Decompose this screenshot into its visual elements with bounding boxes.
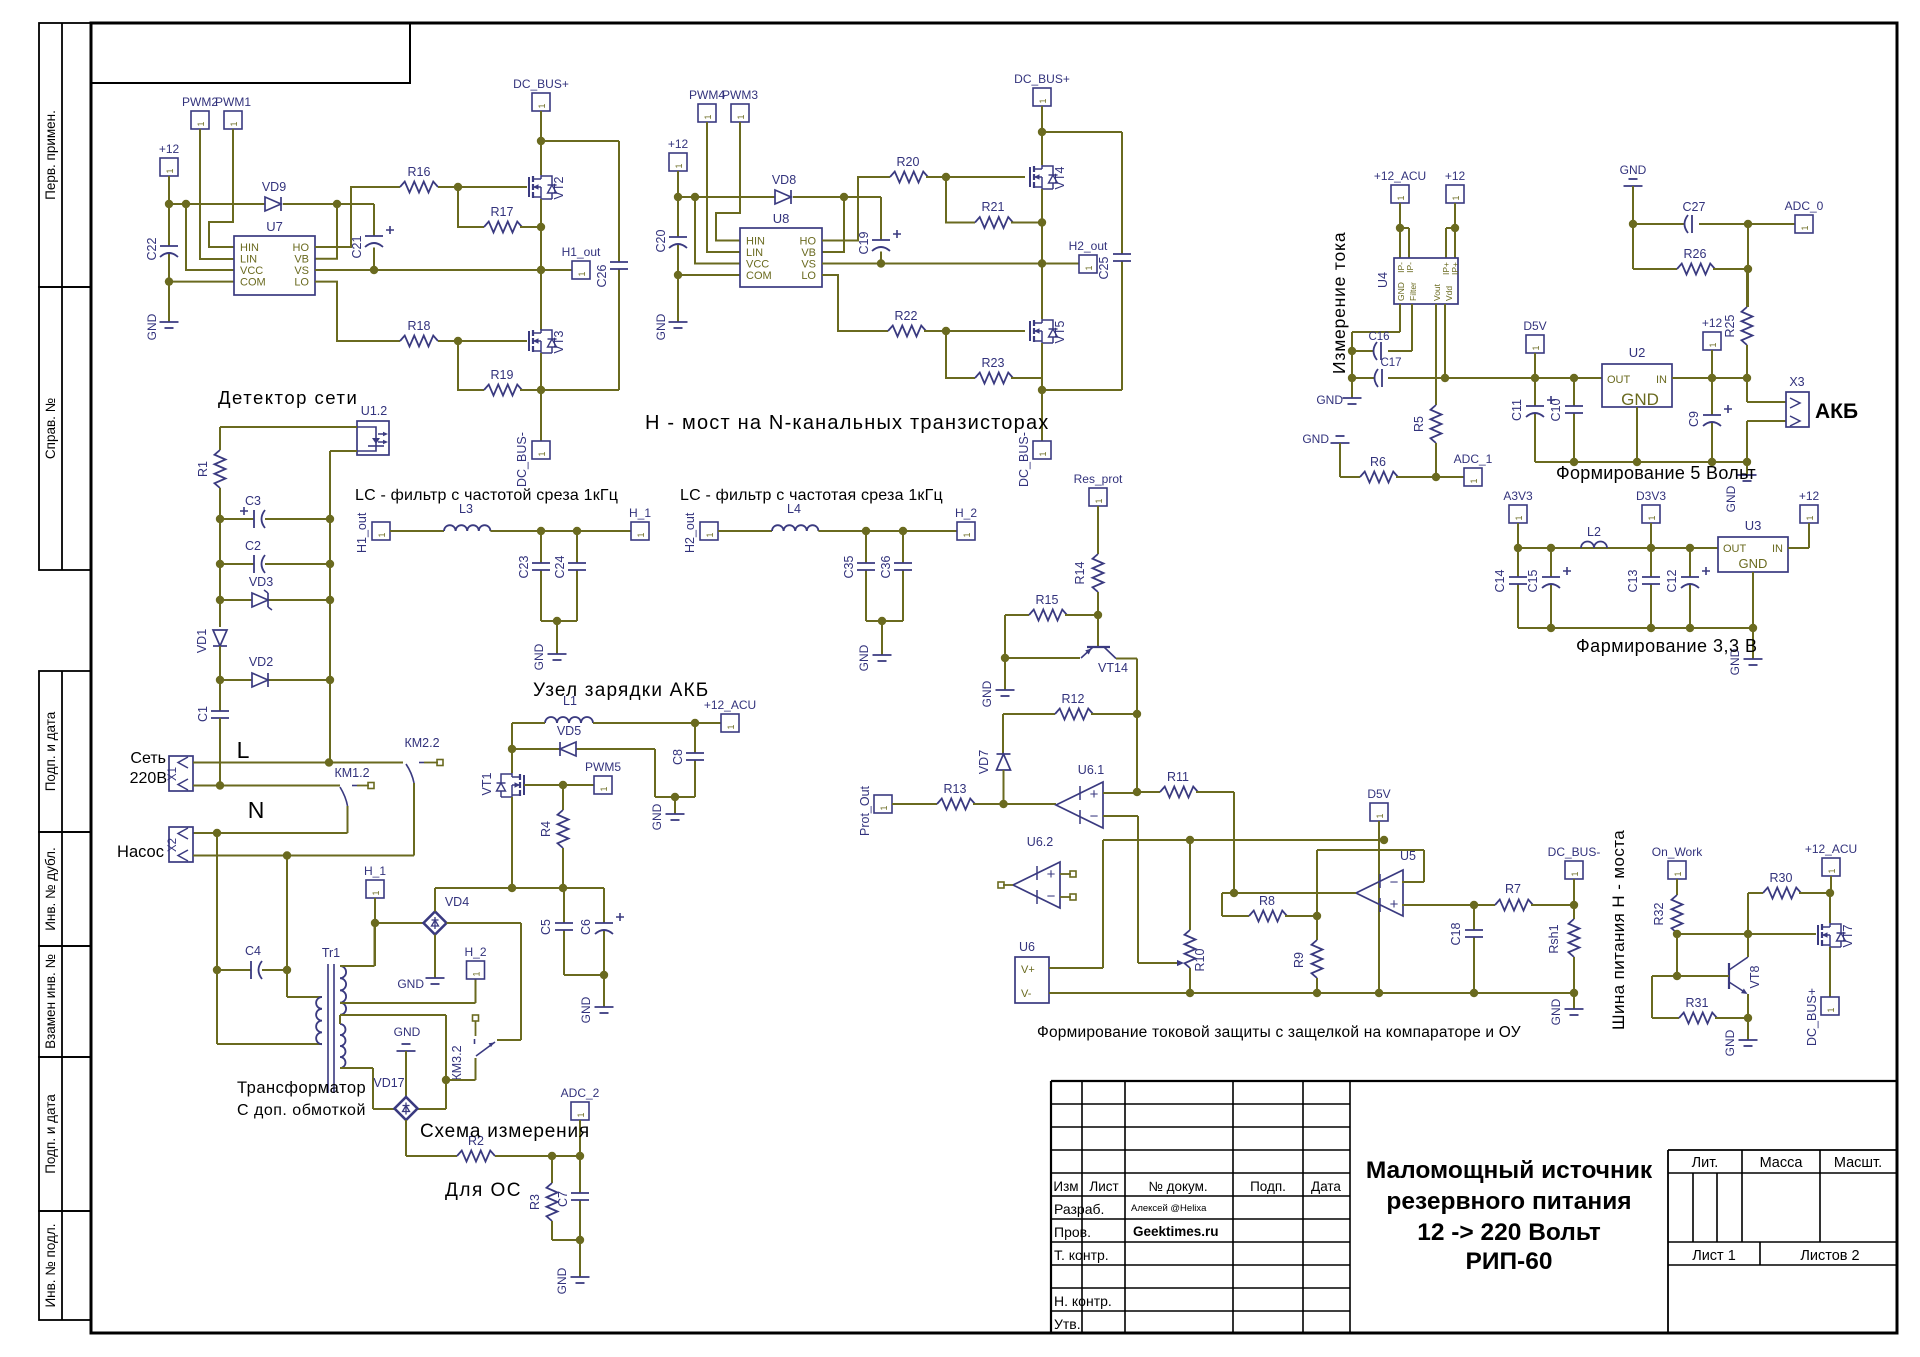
svg-text:PWM5: PWM5 xyxy=(585,760,621,774)
svg-text:GND: GND xyxy=(1724,485,1738,512)
wire to L4 xyxy=(718,530,772,532)
wire C25 branch xyxy=(1042,132,1122,390)
wire VT1 source xyxy=(511,797,513,888)
svg-text:PWM2: PWM2 xyxy=(182,95,218,109)
wire R15 right xyxy=(1065,614,1098,616)
wire C20 to GND xyxy=(677,275,679,322)
wire VT8 collector xyxy=(1747,934,1749,957)
resistor R14 xyxy=(1093,554,1104,592)
wire R32 down xyxy=(1676,933,1678,976)
wire R1 down xyxy=(219,488,221,627)
transistor VT3 xyxy=(528,331,530,351)
wire L1 left xyxy=(512,723,545,749)
svg-text:VT4: VT4 xyxy=(1053,166,1067,189)
capacitor C26 xyxy=(610,261,628,263)
wire U4 GND pin xyxy=(1352,304,1400,378)
svg-text:1: 1 xyxy=(165,168,175,173)
svg-text:GND: GND xyxy=(1549,998,1563,1025)
svg-text:Инв. № дубл.: Инв. № дубл. xyxy=(43,847,58,931)
wire to GND xyxy=(603,975,605,1007)
wire PWM4 to LIN xyxy=(707,122,740,252)
port ADC_1 xyxy=(1464,468,1482,486)
svg-text:1: 1 xyxy=(1396,195,1406,200)
wire latch bottom rail xyxy=(1049,992,1574,994)
svg-text:1: 1 xyxy=(1451,195,1461,200)
svg-text:1: 1 xyxy=(636,532,646,537)
svg-text:C15: C15 xyxy=(1526,569,1540,592)
svg-text:Для ОС: Для ОС xyxy=(445,1180,522,1201)
wire to GND xyxy=(1573,993,1575,1009)
svg-text:GND: GND xyxy=(654,313,668,340)
port +12 (U4) xyxy=(1446,185,1464,203)
svg-text:GND: GND xyxy=(1739,556,1768,571)
svg-text:Формирование токовой защиты с: Формирование токовой защиты с защелкой н… xyxy=(1037,1024,1521,1041)
wire 3.3V bottom rail xyxy=(1518,627,1753,629)
svg-text:Справ. №: Справ. № xyxy=(43,398,58,459)
svg-text:C14: C14 xyxy=(1493,569,1507,592)
svg-text:GND: GND xyxy=(1316,393,1343,407)
svg-text:H2_out: H2_out xyxy=(683,512,697,553)
svg-text:VD5: VD5 xyxy=(557,724,581,738)
port H1_out (filter1) xyxy=(372,522,390,540)
wire R16 to VT2 gate xyxy=(438,186,527,188)
svg-text:L4: L4 xyxy=(787,502,801,516)
resistor R26 xyxy=(1633,268,1677,270)
svg-text:+: + xyxy=(1090,786,1099,803)
svg-text:H_1: H_1 xyxy=(629,506,651,520)
svg-text:C12: C12 xyxy=(1665,569,1679,592)
wire VT14 collector xyxy=(1116,659,1137,793)
svg-text:PWM1: PWM1 xyxy=(215,95,251,109)
svg-text:РИП-60: РИП-60 xyxy=(1466,1248,1553,1275)
inductor L4 xyxy=(772,525,818,531)
wire gate to R19 xyxy=(458,341,484,390)
svg-text:C16: C16 xyxy=(1368,331,1389,343)
svg-text:Масса: Масса xyxy=(1760,1155,1804,1171)
svg-text:On_Work: On_Work xyxy=(1652,845,1703,859)
svg-text:1: 1 xyxy=(1805,515,1815,520)
wire gate line xyxy=(1677,933,1816,935)
wire 3.3V rail xyxy=(1518,547,1718,549)
wire U2 GND pin xyxy=(1636,407,1638,462)
inductor L2 xyxy=(1581,542,1607,549)
wire VD7 anode xyxy=(1003,770,1005,804)
capacitor C7 xyxy=(579,1156,581,1240)
wire filter1 bottom xyxy=(541,620,577,622)
svg-text:Tr1: Tr1 xyxy=(322,946,340,960)
port +12_ACU (U4) xyxy=(1391,185,1409,203)
svg-text:D5V: D5V xyxy=(1523,319,1546,333)
port +12 (U8) xyxy=(669,153,687,171)
svg-text:ADC_1: ADC_1 xyxy=(1454,452,1493,466)
wire VD4 top vertex xyxy=(434,888,436,912)
svg-text:1: 1 xyxy=(736,114,746,119)
svg-text:+12: +12 xyxy=(1445,169,1466,183)
svg-text:1: 1 xyxy=(1375,813,1385,818)
regulator U2 box xyxy=(1602,364,1672,407)
wire A3V3 down xyxy=(1517,523,1519,548)
wire Prot_Out to R13 xyxy=(892,803,937,805)
port DC_BUS+ (bridge2) xyxy=(1033,88,1051,106)
wire VT8 base xyxy=(1677,975,1729,977)
svg-text:HO: HO xyxy=(293,242,310,254)
svg-text:Трансформатор: Трансформатор xyxy=(237,1079,366,1097)
ground (filter2) xyxy=(873,654,892,656)
wire +12 to IN xyxy=(1788,523,1809,548)
svg-text:DC_BUS-: DC_BUS- xyxy=(515,432,529,487)
wire VT1 drain xyxy=(511,749,513,773)
svg-text:N: N xyxy=(248,797,265,823)
wire to GND xyxy=(579,1240,581,1277)
wire PWM2 to LIN xyxy=(200,129,234,259)
wire C1 to N line xyxy=(219,718,221,786)
wire VCC riser (U8) xyxy=(695,197,740,264)
svg-text:1: 1 xyxy=(1647,515,1657,520)
wire gate to R23 xyxy=(946,331,975,378)
svg-text:Формирование 5 Вольт: Формирование 5 Вольт xyxy=(1556,463,1756,483)
wire Res_prot down xyxy=(1097,506,1099,554)
svg-text:HIN: HIN xyxy=(240,242,259,254)
svg-text:U1.2: U1.2 xyxy=(361,404,387,418)
port On_Work xyxy=(1668,861,1686,879)
wire W3 bottom lead xyxy=(340,1068,395,1109)
wire VD9 to C21 corner xyxy=(283,204,374,236)
svg-text:C9: C9 xyxy=(1687,411,1701,427)
wire +12 rail to VD9 xyxy=(169,203,265,205)
wire COM xyxy=(169,281,234,283)
svg-text:С доп. обмоткой: С доп. обмоткой xyxy=(237,1102,366,1119)
resistor R20 xyxy=(890,172,928,183)
svg-text:C26: C26 xyxy=(595,264,609,287)
svg-text:VT14: VT14 xyxy=(1098,661,1128,675)
wire VD17 bottom vertex xyxy=(406,1120,457,1156)
wire +12_ACU down xyxy=(1830,876,1831,923)
transistor VT2 xyxy=(528,177,530,197)
ground (VD5) xyxy=(674,797,676,814)
svg-text:Маломощный источник: Маломощный источник xyxy=(1366,1157,1653,1184)
svg-text:COM: COM xyxy=(240,277,266,289)
svg-text:1: 1 xyxy=(196,121,206,126)
resistor R2 xyxy=(457,1151,495,1162)
wire to GND xyxy=(1747,1018,1749,1040)
svg-text:GND: GND xyxy=(397,977,424,991)
resistor R19 xyxy=(484,385,522,396)
wire R19 to bottom junction xyxy=(520,389,541,391)
capacitor C13 xyxy=(1650,548,1652,628)
resistor R11 xyxy=(1137,791,1160,793)
svg-text:DC_BUS+: DC_BUS+ xyxy=(1805,988,1819,1046)
svg-text:Листов 2: Листов 2 xyxy=(1800,1248,1859,1264)
svg-text:R31: R31 xyxy=(1686,996,1709,1010)
wire PWM1 to HIN xyxy=(209,129,234,247)
optocoupler U1.2 internals xyxy=(357,427,376,451)
capacitor C14 xyxy=(1517,548,1519,628)
svg-text:VD8: VD8 xyxy=(772,173,796,187)
svg-text:1: 1 xyxy=(1084,265,1094,270)
svg-text:LC - фильтр с частотая среза 1: LC - фильтр с частотая среза 1кГц xyxy=(680,487,943,504)
svg-text:Измерение тока: Измерение тока xyxy=(1329,232,1349,374)
ground (5V) xyxy=(1738,474,1757,476)
wire W2 mid tap to H_2 xyxy=(340,979,476,1003)
wire R9 down xyxy=(1316,978,1318,993)
svg-text:R21: R21 xyxy=(982,200,1005,214)
svg-text:Лист 1: Лист 1 xyxy=(1692,1248,1736,1264)
wire R6 to ADC_1 xyxy=(1396,476,1464,478)
port H_2 (filter2) xyxy=(957,522,975,540)
wire R4 down xyxy=(562,848,564,888)
svg-text:R10: R10 xyxy=(1193,948,1207,971)
port DC_BUS- (bridge2) xyxy=(1033,441,1051,459)
svg-text:C5: C5 xyxy=(539,919,553,935)
svg-text:V+: V+ xyxy=(1021,964,1035,976)
resistor R31 xyxy=(1652,976,1679,1018)
title block xyxy=(1051,1081,1897,1333)
svg-text:VT1: VT1 xyxy=(480,772,494,795)
svg-text:Подп. и дата: Подп. и дата xyxy=(43,711,58,791)
svg-text:Насос: Насос xyxy=(117,843,164,861)
svg-text:HIN: HIN xyxy=(746,236,765,248)
wire L3 to H_1 xyxy=(490,530,631,532)
resistor R4 xyxy=(562,785,564,810)
svg-text:H_2: H_2 xyxy=(955,506,977,520)
svg-text:+12: +12 xyxy=(668,137,689,151)
svg-text:X1: X1 xyxy=(167,767,179,781)
svg-text:C22: C22 xyxy=(145,237,159,260)
port H_1 (filter1) xyxy=(631,522,649,540)
svg-text:VS: VS xyxy=(801,259,816,271)
wire C19 to VS xyxy=(880,252,882,264)
wire 5V bottom rail xyxy=(1535,461,1747,463)
wire LO to R22 xyxy=(822,275,888,331)
svg-text:D5V: D5V xyxy=(1367,787,1390,801)
wire R18 to VT3 gate xyxy=(438,340,527,342)
wire HO to R20 xyxy=(822,177,890,241)
capacitor C36 xyxy=(902,531,904,621)
svg-text:+12: +12 xyxy=(159,142,180,156)
svg-text:GND: GND xyxy=(1302,432,1329,446)
svg-text:1: 1 xyxy=(537,103,547,108)
svg-text:Изм: Изм xyxy=(1053,1179,1078,1194)
svg-text:1: 1 xyxy=(1038,451,1048,456)
wire KM1.2 to X2 pin1 xyxy=(193,806,348,833)
svg-text:C11: C11 xyxy=(1510,399,1524,421)
svg-text:−: − xyxy=(1090,808,1099,825)
port Res_prot xyxy=(1089,488,1107,506)
svg-text:Vdd: Vdd xyxy=(1444,286,1454,301)
svg-text:LIN: LIN xyxy=(240,254,257,266)
svg-text:U6.2: U6.2 xyxy=(1027,835,1053,849)
svg-text:1: 1 xyxy=(1038,98,1048,103)
wire W2-W3 link xyxy=(339,1015,341,1024)
svg-text:Geektimes.ru: Geektimes.ru xyxy=(1133,1224,1219,1239)
wire HO to R16 xyxy=(315,187,400,247)
svg-text:1: 1 xyxy=(576,1112,586,1117)
potentiometer R10 xyxy=(1189,840,1191,930)
port PWM1 xyxy=(224,111,242,129)
wire R2 to ADC_2 node xyxy=(495,1155,580,1157)
svg-text:GND: GND xyxy=(394,1025,421,1039)
svg-text:1: 1 xyxy=(229,121,239,126)
wire D3V3 down xyxy=(1650,523,1652,548)
port A3V3 xyxy=(1509,505,1527,523)
wire +12 rail to VD8 xyxy=(678,196,775,198)
svg-text:КМ1.2: КМ1.2 xyxy=(334,766,369,780)
svg-text:1: 1 xyxy=(1514,515,1524,520)
capacitor C35 xyxy=(865,531,867,621)
ground (U8) xyxy=(669,321,688,323)
wire R11 to latch node xyxy=(1196,792,1234,893)
wire U4 Vdd xyxy=(1444,304,1446,378)
port H2_out (bridge2) xyxy=(1079,255,1097,273)
wire VT2 source to VT3 drain xyxy=(540,199,542,330)
resistor R30 xyxy=(1748,893,1763,934)
wire KM3.2 bottom xyxy=(446,1058,476,1080)
svg-text:+12: +12 xyxy=(1702,316,1723,330)
svg-text:R1: R1 xyxy=(196,461,210,477)
svg-text:C17: C17 xyxy=(1380,357,1401,369)
svg-text:R6: R6 xyxy=(1370,455,1386,469)
svg-text:+12: +12 xyxy=(1799,489,1820,503)
wire U6.1 - input xyxy=(1103,816,1177,963)
svg-text:№ докум.: № докум. xyxy=(1148,1179,1207,1194)
capacitor C20 xyxy=(677,197,679,275)
resistor R21 xyxy=(975,217,1013,228)
svg-text:U6: U6 xyxy=(1019,940,1035,954)
svg-text:ADC_0: ADC_0 xyxy=(1785,199,1824,213)
svg-text:C3: C3 xyxy=(245,494,261,508)
svg-text:−: − xyxy=(1047,888,1056,905)
wire PWM3 to HIN xyxy=(716,122,740,241)
capacitor C6 xyxy=(603,888,605,975)
svg-text:C23: C23 xyxy=(517,555,531,578)
capacitor C9 xyxy=(1711,378,1713,462)
capacitor C1 xyxy=(211,710,229,712)
svg-text:C24: C24 xyxy=(553,555,567,578)
resistor R32 xyxy=(1672,895,1683,933)
svg-text:Vout: Vout xyxy=(1432,283,1442,301)
wire LO to R18 xyxy=(315,282,400,341)
svg-text:Пров.: Пров. xyxy=(1054,1224,1091,1240)
port DC_BUS+ (bus) xyxy=(1821,997,1839,1015)
resistor R25 xyxy=(1746,269,1748,307)
wire R14 down xyxy=(1097,592,1099,647)
svg-text:H2_out: H2_out xyxy=(1069,239,1108,253)
svg-text:DC_BUS+: DC_BUS+ xyxy=(513,77,569,91)
wire to L3 xyxy=(390,530,444,532)
wire U4 Filter pin xyxy=(1388,304,1412,351)
ground (filter1) xyxy=(548,653,567,655)
wire +12 down xyxy=(1711,350,1713,378)
svg-text:C21: C21 xyxy=(350,235,364,258)
wire COM (U8) xyxy=(678,274,740,276)
svg-text:1: 1 xyxy=(371,890,381,895)
svg-text:VT2: VT2 xyxy=(552,176,566,199)
svg-text:GND: GND xyxy=(980,680,994,707)
svg-text:VT7: VT7 xyxy=(1841,924,1855,947)
svg-text:Лит.: Лит. xyxy=(1692,1155,1719,1171)
wire VT7 source xyxy=(1829,947,1831,997)
wire V+ to rail xyxy=(1049,840,1103,968)
svg-text:PWM3: PWM3 xyxy=(722,88,758,102)
resistor R16 xyxy=(400,182,438,193)
inductor L3 xyxy=(444,525,490,531)
svg-text:R23: R23 xyxy=(982,356,1005,370)
capacitor C16 xyxy=(1352,350,1374,352)
svg-text:IN: IN xyxy=(1656,374,1667,386)
diode VD8 xyxy=(775,190,791,204)
svg-text:VT5: VT5 xyxy=(1053,320,1067,343)
svg-text:Взамен инв. №: Взамен инв. № xyxy=(43,954,58,1049)
wire U5 + input xyxy=(1402,904,1495,906)
ground (latch) xyxy=(1565,1008,1584,1010)
port H2_out (filter2) xyxy=(700,522,718,540)
wire R17 to source xyxy=(520,226,541,228)
port D3V3 xyxy=(1642,505,1660,523)
wire VD8 to C19 corner xyxy=(793,197,881,240)
ground (VT8) xyxy=(1739,1039,1758,1041)
svg-text:1: 1 xyxy=(537,451,547,456)
svg-text:Н. контр.: Н. контр. xyxy=(1054,1293,1112,1309)
svg-text:1: 1 xyxy=(1094,498,1104,503)
svg-text:IP+: IP+ xyxy=(1450,262,1460,275)
wire U6.1 + input xyxy=(1103,792,1137,794)
port +12 (U2) xyxy=(1703,332,1721,350)
wire VT3 source down xyxy=(540,353,542,441)
svg-text:Узел зарядки АКБ: Узел зарядки АКБ xyxy=(533,680,709,701)
wire gate to R17 xyxy=(458,187,484,227)
svg-text:C20: C20 xyxy=(654,229,668,252)
svg-text:220В: 220В xyxy=(130,770,167,787)
bridge rectifier VD4 xyxy=(424,912,447,935)
resistor R1 xyxy=(215,450,226,488)
ground (measure) xyxy=(571,1276,590,1278)
port DC_BUS+ (bridge1) xyxy=(532,93,550,111)
diode VD7 xyxy=(1002,714,1004,754)
svg-text:A3V3: A3V3 xyxy=(1503,489,1533,503)
wire X3 lower xyxy=(1747,421,1786,462)
wire KM2.2 down xyxy=(413,783,415,856)
svg-text:1: 1 xyxy=(1570,871,1580,876)
svg-text:1: 1 xyxy=(1826,1007,1836,1012)
svg-text:R20: R20 xyxy=(897,155,920,169)
bridge rectifier VD17 xyxy=(395,1097,418,1120)
wire VB riser (U8) xyxy=(822,197,844,252)
wire N line xyxy=(193,785,340,787)
wire GND to VD17 top xyxy=(405,1051,407,1097)
port +12 (U3) xyxy=(1800,505,1818,523)
port D5V (latch) xyxy=(1370,803,1388,821)
U6.2 + stub xyxy=(1060,873,1071,875)
wire gate to R21 xyxy=(946,177,975,223)
wire U5 output xyxy=(1222,893,1356,916)
capacitor C3 xyxy=(220,518,330,520)
svg-text:Инв. № подл.: Инв. № подл. xyxy=(43,1223,58,1307)
diode VD5 xyxy=(512,748,655,750)
svg-text:Утв.: Утв. xyxy=(1054,1316,1081,1332)
svg-text:R25: R25 xyxy=(1723,314,1737,337)
capacitor C25 xyxy=(1113,253,1131,255)
wire R22 to VT5 gate xyxy=(924,330,1025,332)
svg-text:R22: R22 xyxy=(895,309,918,323)
wire to GND xyxy=(1746,462,1748,475)
wire H_1 down xyxy=(374,898,376,966)
resistor R18 xyxy=(400,336,438,347)
resistor R7 xyxy=(1495,900,1533,911)
capacitor C5 xyxy=(563,888,565,975)
svg-text:C36: C36 xyxy=(879,555,893,578)
svg-text:VD1: VD1 xyxy=(195,629,209,653)
wire VD5 anode down xyxy=(655,749,695,797)
